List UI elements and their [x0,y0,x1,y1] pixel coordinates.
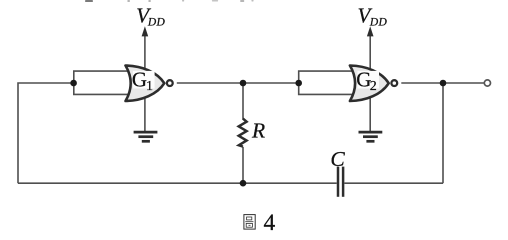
output terminal (open circle) [484,80,490,86]
junction node: R top [240,80,247,87]
ground G2 [359,132,383,141]
svg-text:G: G [132,67,147,91]
VDD arrowhead G2 [367,26,374,36]
wire: output branch down to capacitor [442,83,444,183]
output bubble G2 [391,80,397,86]
junction node: output [440,80,447,87]
junction node: G1 input [70,80,77,87]
wire: VDD stem through G2 [369,33,371,131]
VDD label G2 [358,4,388,29]
scan artifact marks along top edge [86,0,253,2]
capacitor C plates [338,167,343,197]
output bubble G1 [167,80,173,86]
ground G1 [134,132,158,141]
wire: bottom node left of capacitor [18,182,337,184]
wire: capacitor right plate to output branch [344,182,443,184]
resistor R value label [251,118,265,142]
wire: G1 output to G2 input [177,82,299,84]
gate G2 label [356,67,379,94]
NOR gate G2 body [350,66,389,102]
wire: resistor top lead [242,83,244,120]
wire: G2 tied input bracket [299,71,355,94]
caption: character 圖 [244,215,255,230]
NOR gate G1 body [126,66,165,102]
junction node: R bottom [240,180,247,187]
svg-text:2: 2 [370,79,377,94]
resistor R zigzag [239,119,247,147]
wire: G1 tied input bracket [74,71,130,94]
wire: resistor bottom lead [242,147,244,183]
junction node: G2 input [295,80,302,87]
caption: figure number 4 [264,210,276,236]
VDD label G1 [136,4,165,29]
wire: feedback loop left side [18,83,74,183]
capacitor C value label [330,147,345,171]
VDD arrowhead G1 [142,26,149,36]
gate G1 label [132,67,155,94]
wire: G2 output to terminal [401,82,484,84]
svg-text:DD: DD [369,16,388,28]
svg-text:R: R [251,118,265,142]
svg-text:C: C [330,147,345,171]
svg-text:1: 1 [146,79,153,94]
wire: VDD stem through G1 [144,33,146,131]
svg-text:4: 4 [264,210,276,235]
svg-text:DD: DD [147,16,166,28]
